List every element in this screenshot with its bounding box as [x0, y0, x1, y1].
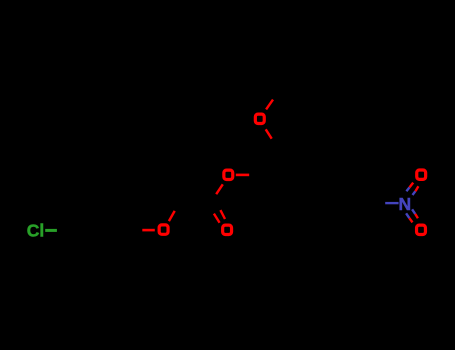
svg-text:Cl: Cl	[27, 220, 45, 240]
svg-text:N: N	[398, 194, 411, 214]
